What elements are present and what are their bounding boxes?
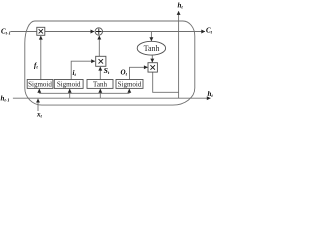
svg-text:Ct-1: Ct-1	[1, 28, 11, 36]
svg-text:it: it	[73, 69, 77, 77]
svg-text:ht: ht	[208, 90, 214, 98]
svg-text:Ot: Ot	[121, 69, 128, 77]
svg-text:ft: ft	[34, 62, 38, 70]
svg-text:Tanh: Tanh	[144, 44, 160, 53]
svg-text:Sigmoid: Sigmoid	[118, 80, 142, 88]
svg-text:Ct: Ct	[206, 27, 213, 35]
svg-text:Sigmoid: Sigmoid	[57, 80, 81, 88]
svg-text:Tanh: Tanh	[93, 80, 107, 88]
svg-text:Sigmoid: Sigmoid	[28, 80, 52, 88]
svg-text:ht-1: ht-1	[1, 95, 10, 103]
svg-text:ht: ht	[178, 2, 184, 10]
svg-text:xt: xt	[36, 111, 43, 119]
svg-text:St: St	[104, 66, 110, 75]
